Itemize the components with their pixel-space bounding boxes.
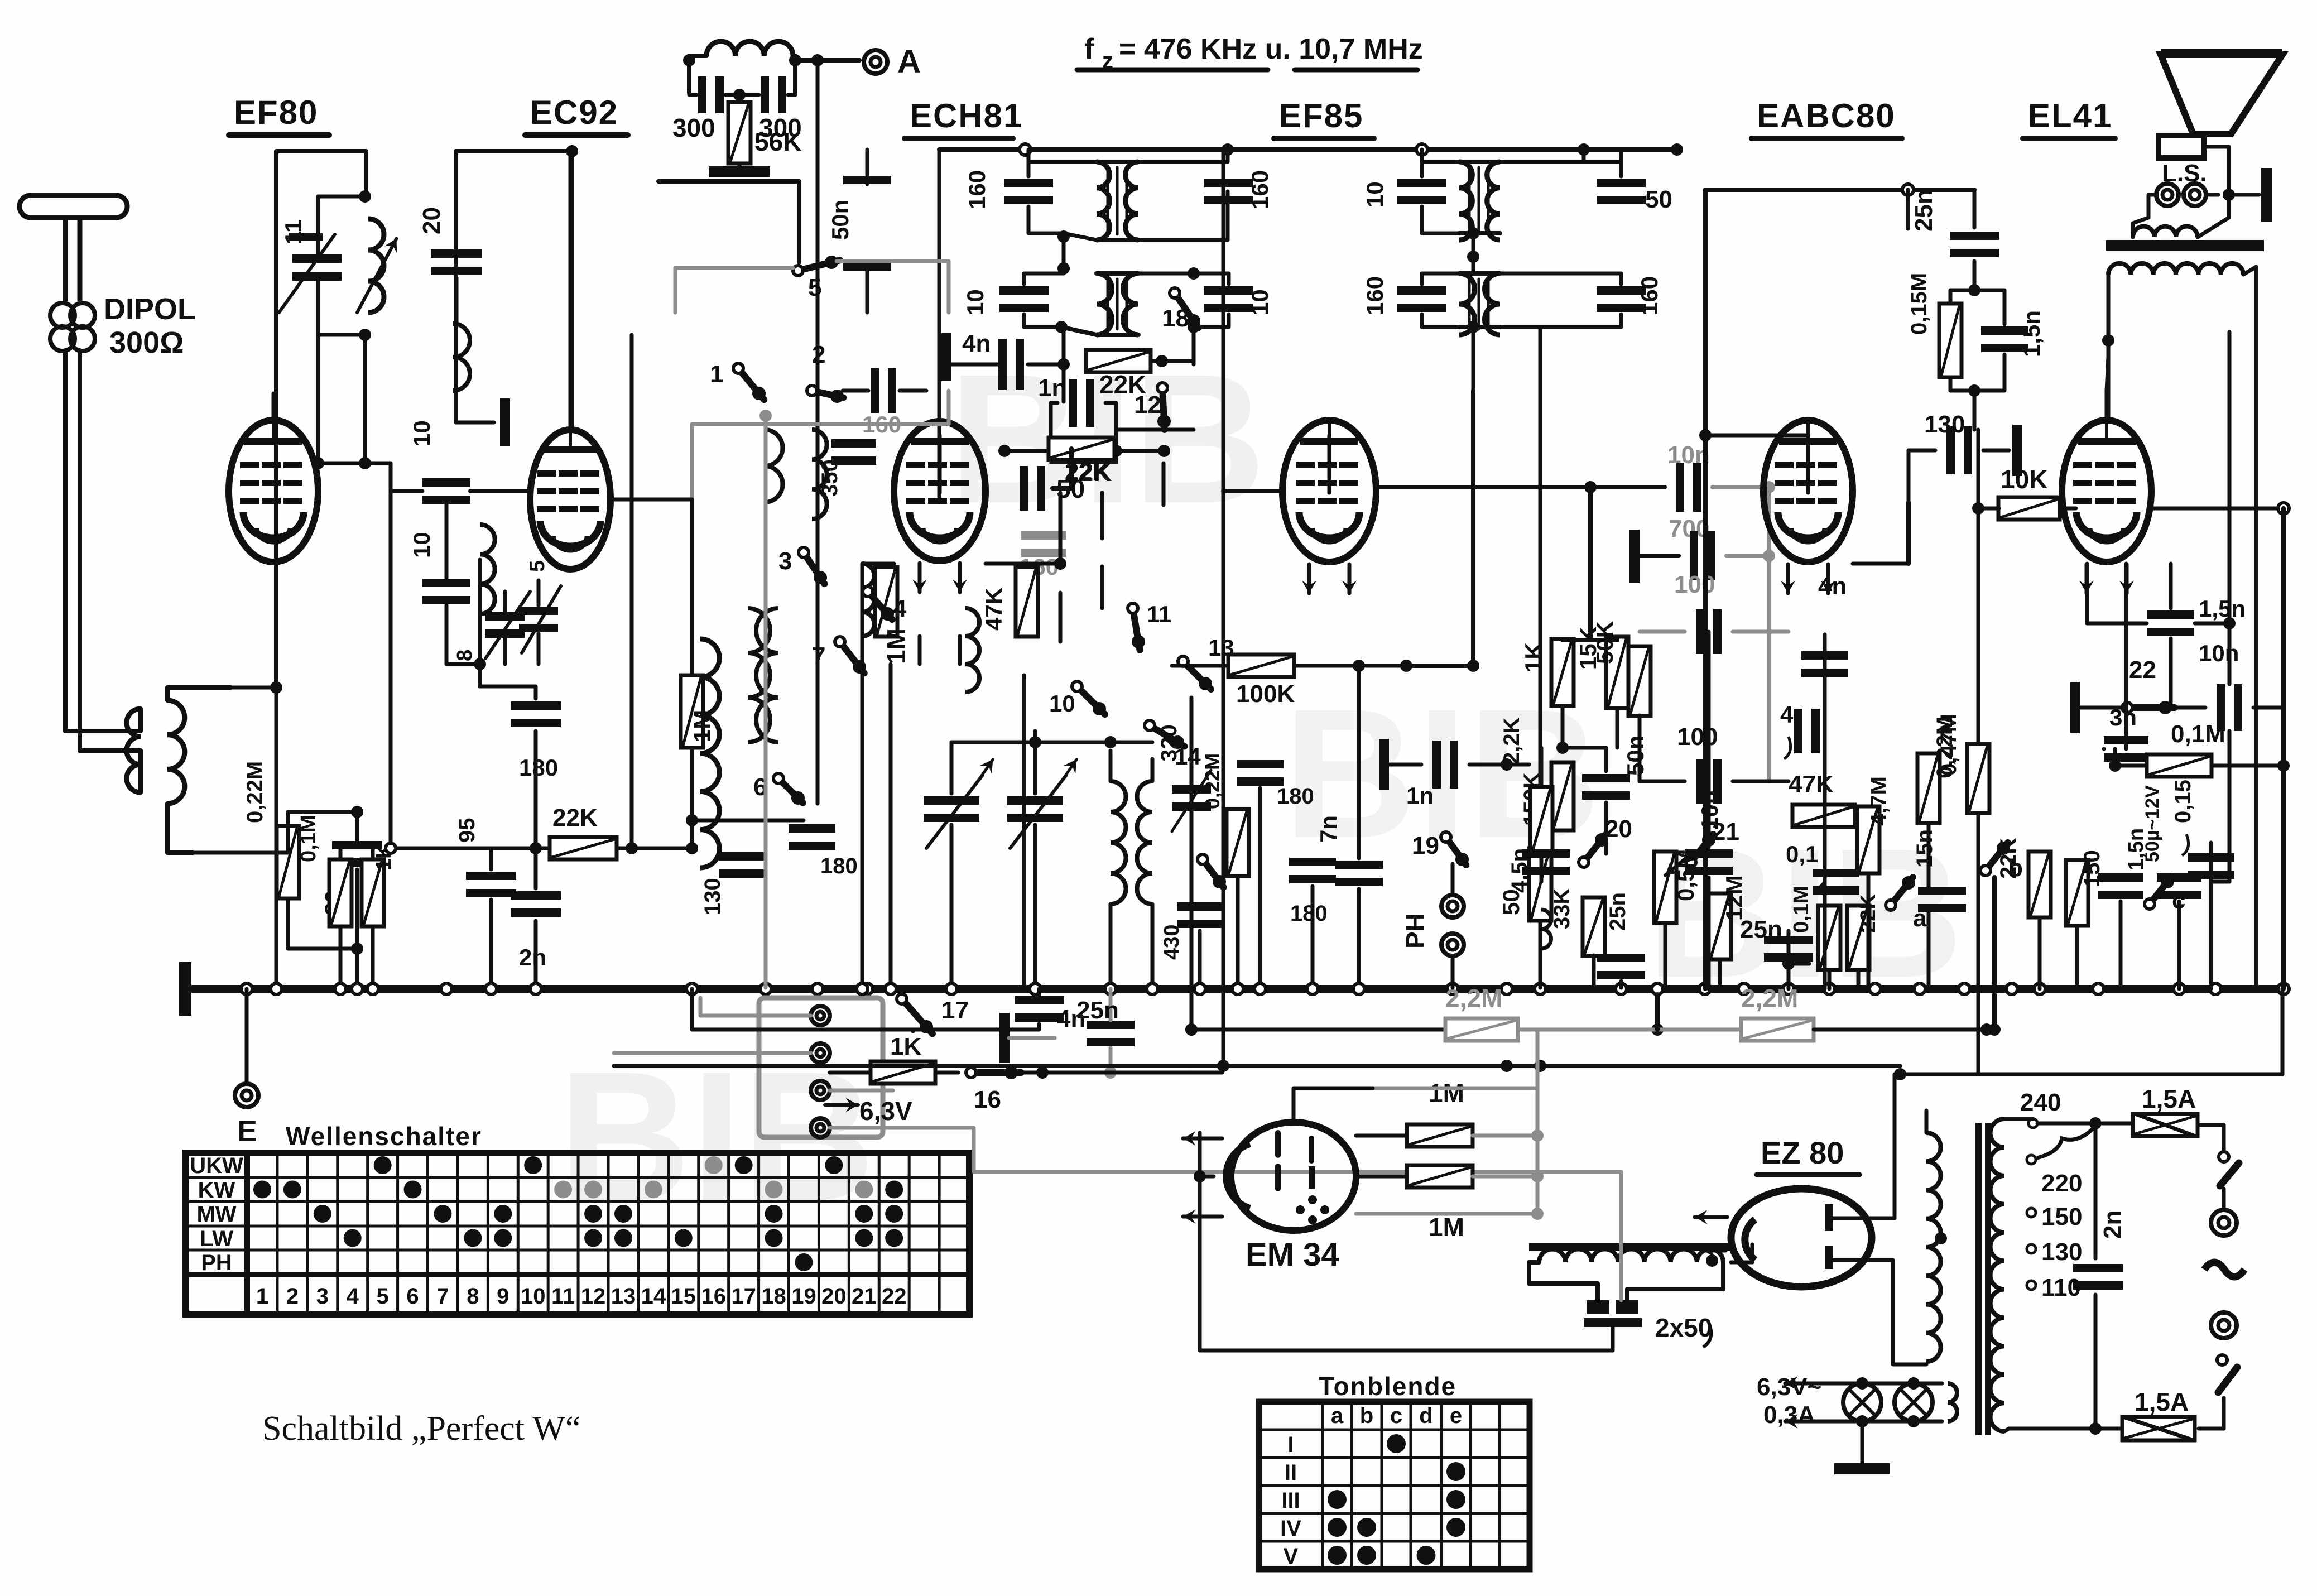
big tuning coil (700, 639, 719, 868)
wire osc coil1 bottom (861, 636, 864, 989)
wire eabc 10n top (1707, 632, 1711, 737)
resistor 0,1M el (2147, 754, 2212, 777)
wire gray bank down (764, 416, 768, 608)
wire 100 row (1638, 715, 1642, 781)
capacitor 7n (1335, 861, 1383, 869)
EF80 anode tank box (276, 151, 366, 391)
wire 022M-80 bottom (288, 869, 357, 949)
resistor 2,2M a (1445, 1018, 1518, 1041)
svg-text:47K: 47K (980, 588, 1007, 631)
tuning cap var 2 (1007, 796, 1063, 805)
wire el right col (2228, 731, 2232, 882)
svg-text:0,15: 0,15 (2171, 780, 2195, 823)
capacitor 50n mid (843, 176, 891, 184)
resistor 12M (1709, 893, 1731, 959)
svg-text:300: 300 (672, 113, 715, 142)
capacitor 11 plates (292, 254, 342, 263)
capacitor 10n el (2217, 684, 2225, 731)
wire EF85 grid left (1223, 489, 1282, 493)
output primary right end (2243, 267, 2256, 989)
wire cap10 chain (445, 505, 449, 578)
capacitor 2n (511, 891, 561, 900)
node gray a (759, 410, 772, 422)
cap 4n T-plate (941, 333, 951, 381)
svg-text:56K: 56K (754, 127, 801, 156)
svg-text:V: V (1284, 1544, 1299, 1569)
wire 4n to node (1028, 363, 1064, 367)
svg-text:10K: 10K (2001, 465, 2047, 494)
osc coils mid (965, 608, 979, 692)
svg-text:22: 22 (882, 1284, 907, 1309)
capacitor 4n (998, 339, 1007, 390)
svg-text:DIPOL: DIPOL (104, 292, 196, 326)
svg-text:17: 17 (941, 997, 969, 1024)
capacitor 20 (431, 249, 482, 258)
resistor 47K osc (1016, 567, 1038, 637)
osc coil pair (748, 608, 770, 742)
IFT4 right caps (1597, 179, 1646, 187)
svg-text:7n: 7n (1315, 815, 1342, 843)
antenna dipole stem (65, 217, 80, 301)
svg-text:50n: 50n (1622, 735, 1648, 776)
switch 7 (835, 637, 845, 647)
svg-text:130: 130 (2041, 1238, 2082, 1266)
wire 20 to coil (455, 277, 459, 324)
wire 22K row (391, 847, 550, 850)
svg-text:0,15M: 0,15M (1907, 273, 1931, 335)
wire top mains (2004, 1117, 2033, 1121)
resistor 10K (1998, 497, 2060, 520)
svg-text:100K: 100K (1236, 680, 1295, 708)
wire 50n stem (866, 150, 869, 184)
variometer arrow (357, 239, 396, 313)
svg-text:0,1M: 0,1M (297, 815, 320, 862)
svg-text:a: a (1331, 1403, 1344, 1428)
wire 22 row (2170, 706, 2205, 710)
wire 50cap link (1052, 486, 1071, 491)
lamp wires top (1819, 1382, 1942, 1386)
svg-text:47K: 47K (1789, 771, 1834, 798)
wire 4n stem (1109, 989, 1113, 1020)
svg-text:A: A (897, 44, 921, 80)
capacitor 25n top (1950, 232, 1999, 240)
wire EF85 left rail2 (1222, 150, 1225, 1066)
terminal mains top (2211, 1210, 2237, 1236)
svg-text:6: 6 (406, 1284, 419, 1309)
wire cap10 col down (445, 605, 449, 664)
wire EM34 1M right rail (1536, 1030, 1540, 1066)
svg-text:10: 10 (1362, 181, 1388, 208)
svg-text:16: 16 (974, 1086, 1001, 1113)
wire em34 vertical (1536, 1066, 1540, 1214)
svg-text:6,3V~: 6,3V~ (1757, 1373, 1821, 1401)
svg-text:3: 3 (778, 547, 792, 575)
wire heater long link (1220, 1066, 1224, 1073)
capacitor 25n bus (1015, 996, 1064, 1004)
svg-text:10n: 10n (2199, 640, 2239, 666)
rail EABC top (1705, 188, 1974, 192)
IFT right cap 10 (1204, 286, 1253, 295)
capacitor 50 right (1020, 466, 1028, 511)
svg-text:EF80: EF80 (234, 94, 318, 131)
wire EABC col3 (2038, 917, 2042, 989)
resistor 100K (1228, 655, 1294, 677)
wire secondary ends (2133, 218, 2148, 237)
electrolytic 2x50 caps (1587, 1300, 1609, 1314)
switch 22s (2122, 703, 2132, 713)
switch mains bottom (2217, 1355, 2227, 1365)
svg-text:16: 16 (701, 1284, 726, 1309)
svg-text:240: 240 (2020, 1089, 2061, 1116)
wire EF80 plate top (272, 393, 276, 420)
svg-text:7: 7 (436, 1284, 449, 1309)
terminal mains bottom (2211, 1313, 2237, 1338)
svg-text:160: 160 (1636, 276, 1662, 315)
chassis bus (191, 985, 2284, 993)
IFT1 cap 160 left (1004, 179, 1053, 187)
svg-text:7: 7 (812, 642, 825, 670)
terminal A (864, 50, 887, 74)
wire EABC col2 (1867, 873, 1871, 989)
wire B+ right edge (2281, 508, 2286, 989)
resistor 2,2M b (1741, 1018, 1814, 1041)
wire sw16 right (1021, 1071, 1222, 1075)
wire to fuse top (2103, 1122, 2133, 1126)
svg-text:130: 130 (700, 878, 725, 915)
tap 150 (2027, 1208, 2036, 1217)
capacitor 3n (2104, 736, 2148, 744)
T plate 130 (2012, 425, 2022, 476)
switch 13s (1178, 656, 1188, 666)
wire EC92 grid coil (478, 614, 482, 664)
svg-text:100: 100 (1677, 723, 1718, 751)
wire 160 osc stem (1059, 593, 1063, 642)
wire y1910 long (614, 1064, 1222, 1068)
wire cath rows (1561, 706, 1565, 748)
wire choke to EZ80 (1731, 1261, 1752, 1265)
resistor 22K grid (1051, 440, 1116, 462)
IFT2 closing (1097, 271, 1138, 276)
wire EABC 4n col (1823, 634, 1827, 989)
wire EC92 plate top (569, 151, 573, 430)
node tank bottom (359, 329, 371, 341)
capacitor 700 (1690, 531, 1698, 580)
svg-text:PH: PH (1401, 913, 1430, 949)
svg-text:33K: 33K (1550, 888, 1574, 929)
IFT4 closing (1459, 271, 1500, 276)
wire choke left plate (1530, 1261, 1534, 1265)
HV winding top (1925, 1111, 1929, 1133)
wire A right junction (795, 58, 859, 63)
svg-text:11: 11 (551, 1284, 575, 1309)
switch 12 (1157, 383, 1167, 393)
switch 6 (773, 773, 783, 783)
tap 130 (2027, 1244, 2036, 1253)
svg-text:180: 180 (1277, 784, 1314, 809)
resistor 1K heater (871, 1061, 935, 1084)
A-circuit top coil (706, 41, 793, 56)
svg-text:12M: 12M (1721, 875, 1747, 921)
choke wires (1529, 1262, 1598, 1300)
svg-text:2,2K: 2,2K (1499, 717, 1524, 765)
switch c (2145, 899, 2155, 909)
svg-text:5: 5 (808, 274, 821, 301)
wire EC92 top (570, 151, 574, 430)
svg-text:0,47M: 0,47M (1936, 714, 1961, 776)
switch a (1886, 900, 1896, 910)
output transformer secondary (2133, 227, 2198, 237)
svg-text:1,5A: 1,5A (2142, 1084, 2196, 1113)
cap 5 trimmer (519, 607, 558, 615)
resistor 0,1M par (329, 859, 352, 926)
svg-text:4: 4 (347, 1284, 359, 1309)
wire EABC left vert (1703, 190, 1708, 989)
svg-text:4n: 4n (962, 330, 991, 357)
wire 022M-80 top (288, 812, 357, 840)
svg-text:UKW: UKW (190, 1153, 243, 1178)
IFT3 wiring (1422, 162, 1459, 176)
Wellenschalter selection dots (374, 1156, 392, 1174)
wire 2,2M right (1814, 1028, 1987, 1032)
switch 5 gray (793, 266, 803, 276)
wire 47K osc bottom (1022, 675, 1026, 989)
node tank top (359, 190, 371, 203)
speaker frame bar (2261, 168, 2272, 222)
capacitor 300 right (761, 76, 769, 113)
cap 4n heater T (999, 1013, 1010, 1063)
cap 1,5n mid (2169, 610, 2173, 619)
speaker box wire (2148, 195, 2156, 218)
wire 4n eabc (1823, 634, 1827, 649)
EABC80 anode wires (1853, 562, 1909, 566)
svg-text:5: 5 (526, 560, 549, 572)
switch mains top (2219, 1152, 2229, 1162)
T plate 700 (1629, 530, 1640, 583)
wire A down (816, 60, 820, 804)
choke coil (1539, 1249, 1723, 1262)
wire el 015u stem (2209, 843, 2213, 850)
svg-text:10: 10 (962, 289, 988, 315)
capacitor 4,5n (1522, 849, 1570, 858)
lamp ground (1861, 1421, 1864, 1465)
capacitor 100 b (1696, 759, 1704, 804)
resistor 47K eabc (1792, 805, 1855, 827)
svg-text:10: 10 (1049, 690, 1075, 717)
svg-text:50µ~12V: 50µ~12V (2142, 785, 2163, 862)
wire 0,1M (2115, 764, 2147, 768)
wires tuning bottom (950, 825, 954, 988)
IFT4 cap 160 (1397, 286, 1446, 295)
tube EF85 (1282, 420, 1376, 562)
svg-text:1: 1 (256, 1284, 268, 1309)
wire 22K osc stem (1162, 463, 1166, 493)
resistor 22K EF80 (550, 837, 617, 859)
resistor 0,22M eabc (1917, 753, 1940, 823)
wire secondary bottom (167, 804, 193, 853)
svg-text:4: 4 (893, 595, 907, 622)
antenna input transformer primary (127, 709, 141, 792)
wire ECH81 plate (938, 435, 942, 493)
wire y1950 em34 (1536, 1066, 1540, 1088)
connector block outer (759, 998, 883, 1137)
svg-text:180: 180 (519, 754, 558, 781)
wire 25n stem (1973, 190, 1977, 228)
A-circuit box (687, 56, 691, 93)
svg-text:MW: MW (196, 1202, 236, 1227)
switch 1 gray (733, 363, 743, 373)
capacitor 1,5n el (2147, 610, 2194, 619)
wire tank bottom to tube (363, 335, 367, 393)
capacitor 300 left (698, 76, 706, 113)
cap small mid (1172, 785, 1211, 794)
cap 50u 12V (2157, 873, 2201, 882)
chassis bus terminal (179, 962, 191, 1016)
output transformer primary (2108, 263, 2243, 275)
svg-text:4: 4 (1780, 701, 1794, 728)
svg-text:0,1M: 0,1M (2171, 720, 2225, 748)
wire EM34 y2100 gray (1619, 1172, 1623, 1300)
IFT3 core (1468, 167, 1471, 234)
svg-text:20: 20 (1605, 815, 1632, 843)
wire conn4 heater (830, 1128, 1621, 1172)
trimmer cap 11 branch (316, 196, 320, 240)
wire box left down (274, 391, 278, 688)
svg-text:III: III (1281, 1488, 1300, 1513)
grid coil trimmer (485, 612, 525, 621)
svg-text:160: 160 (1247, 170, 1273, 209)
wire 1M osc bottom (889, 664, 893, 989)
resistor 4,7M (1857, 806, 1879, 873)
svg-text:350: 350 (818, 459, 842, 497)
wire el 3n left (2102, 747, 2106, 751)
svg-text:180: 180 (820, 854, 858, 878)
small coil 33K area (1541, 910, 1551, 949)
svg-text:1n: 1n (1406, 782, 1434, 809)
switch 18 (1170, 288, 1180, 298)
svg-text:b: b (2008, 854, 2023, 882)
wire mix row top (950, 770, 954, 794)
resistor 56K (728, 102, 751, 164)
ground 56K (738, 164, 742, 167)
svg-text:0,3A: 0,3A (1763, 1401, 1815, 1429)
svg-text:f: f (1084, 33, 1094, 65)
svg-text:18: 18 (761, 1284, 786, 1309)
capacitor 1,5n eabc (2098, 873, 2143, 882)
svg-text:c: c (1390, 1403, 1402, 1428)
capacitor 10n low (1685, 849, 1733, 858)
svg-text:1M: 1M (1429, 1213, 1464, 1242)
capacitor 180 EF80 (511, 701, 561, 710)
svg-text:EABC80: EABC80 (1757, 97, 1896, 134)
EZ80 plate wires (1833, 1074, 1895, 1218)
svg-text:17: 17 (731, 1284, 756, 1309)
resistor 22K low2 (1847, 906, 1869, 970)
EF85 IFT3 coils (1459, 162, 1472, 240)
svg-text:EZ 80: EZ 80 (1761, 1135, 1844, 1170)
resistor 22K ECH (1086, 350, 1151, 372)
node IFT34 (1467, 251, 1479, 263)
wire fuse2 left (2095, 1427, 2122, 1431)
T plate 22 (2070, 682, 2080, 733)
wire eabc verticals (1823, 731, 1827, 801)
IFT2 core (1107, 279, 1109, 329)
wire switch-term (2222, 1189, 2226, 1210)
wire ECH81 k arrows to bus (918, 636, 922, 664)
antenna twisted feeder (50, 303, 75, 328)
wire EF80 input transformer to tube (230, 686, 276, 690)
Tonblende dots (1387, 1434, 1406, 1453)
wire EF80 plate link (316, 335, 320, 463)
IFT1 core (1107, 167, 1109, 234)
wire feeder to input transformer (65, 729, 128, 733)
gray box wire top (658, 181, 799, 262)
capacitor 180 mix (1237, 760, 1284, 768)
svg-text:22K: 22K (552, 804, 598, 831)
wire mains bottom (2009, 1427, 2095, 1431)
connector terminals (811, 1006, 830, 1025)
antenna dipole T-bar (20, 195, 127, 218)
resistor 1K par (362, 859, 384, 926)
wire EF85 anode right (1376, 485, 1665, 489)
svg-text:EM 34: EM 34 (1246, 1237, 1339, 1273)
speaker wires (2179, 193, 2184, 196)
bus rings (241, 983, 252, 994)
T-plate 1n (1379, 739, 1389, 790)
capacitor 4n EABC (1801, 651, 1848, 660)
ground EC92 (500, 398, 510, 446)
switch 15 (1198, 854, 1208, 864)
node A left (683, 54, 695, 66)
IFT4 wiring (1422, 273, 1473, 284)
osc section coils (765, 430, 783, 502)
svg-text:13: 13 (611, 1284, 636, 1309)
resistor 0,1M low (1818, 906, 1840, 970)
capacitor 160 osc (1021, 531, 1066, 540)
speaker cone (2161, 55, 2282, 134)
svg-text:d: d (1419, 1403, 1432, 1428)
HV winding (1926, 1133, 1941, 1362)
wire 2n vertical (2094, 1123, 2098, 1258)
wire pot to 2,2M line (1655, 994, 1660, 1030)
IFT2 wiring (1024, 268, 1064, 284)
IFT1 wiring (1028, 162, 1097, 176)
svg-text:150: 150 (2041, 1203, 2082, 1230)
wire right verticals (2228, 332, 2232, 684)
capacitor 0,1u (1813, 869, 1859, 877)
IFT4 coils (1459, 273, 1474, 335)
svg-text:9: 9 (497, 1284, 509, 1309)
cap 350 (831, 439, 876, 448)
wire pair to bus (339, 926, 343, 988)
svg-text:1K: 1K (1520, 642, 1546, 672)
IFT right cap 160 (1204, 179, 1253, 187)
svg-text:5: 5 (377, 1284, 389, 1309)
svg-text:3: 3 (316, 1284, 329, 1309)
EC92 grid circuit coil (480, 525, 495, 614)
gray rail 1 (692, 391, 949, 525)
svg-text:E: E (237, 1114, 257, 1148)
EC92 B+ rail (456, 151, 573, 391)
wire ECH81 plate right (986, 562, 1060, 566)
wire 1n-22k (1051, 403, 1057, 451)
svg-text:b: b (1360, 1403, 1373, 1428)
tube EF85 plate wire (1328, 435, 1331, 493)
capacitor 25n b (1597, 954, 1645, 962)
svg-text:2n: 2n (519, 944, 546, 970)
resistor 0,47M (1967, 744, 1989, 813)
resistor 50K (1628, 646, 1651, 716)
wire mix row link (951, 741, 1152, 744)
